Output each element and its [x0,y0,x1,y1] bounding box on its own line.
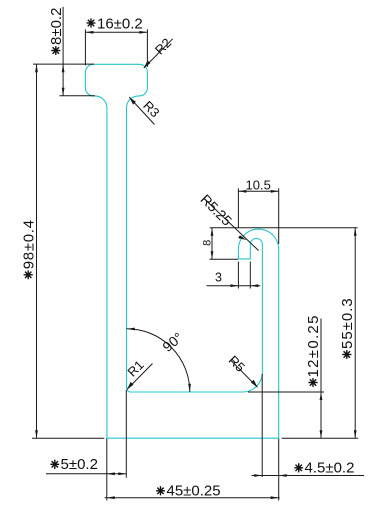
svg-text:R1: R1 [124,357,146,379]
leader R1 [127,364,153,390]
text *16±0.2 [87,18,96,27]
svg-text:45±0.25: 45±0.25 [167,483,221,500]
ext line hook top (55/8) [210,227,358,229]
svg-text:10.5: 10.5 [246,178,271,193]
arrows 45 [107,496,115,499]
arrows 90deg arc [127,328,135,331]
dim *8 ext top [33,63,94,65]
text 90° [159,329,186,355]
arrow R1 [127,382,134,390]
svg-text:R3: R3 [140,98,162,120]
text *55±0.3 (vertical) [339,297,356,359]
arrows 4.5 (outside pointing in) [254,474,262,477]
dim 10.5 ext left [237,188,239,228]
leader R2 [144,39,173,68]
ext line bottom right [282,437,359,439]
angle 90 arc [127,329,190,392]
arrows *16 [85,31,93,34]
dim 12 line [320,319,322,439]
text *5±0.2 [50,460,59,469]
svg-text:8: 8 [202,240,214,246]
svg-text:55±0.3: 55±0.3 [339,297,356,349]
dim 5 ext right [125,390,127,478]
profile outline (cyan extrusion cross-section) [85,64,278,438]
text R5.25 [197,191,235,229]
dim *98 ext bottom [32,437,104,439]
text R5 [226,353,248,375]
dim 45 line [105,497,280,499]
dim *8 ext bottom [60,95,96,97]
dim *8 line [62,7,64,96]
dim *16 ext right [146,29,148,67]
dim 12 ext top [248,391,324,393]
svg-text:R5: R5 [226,353,248,375]
dim 45 ext right [278,439,280,501]
arrows 5 (inside pointing out) [107,472,115,475]
svg-text:8±0.2: 8±0.2 [48,8,65,45]
text R2 [152,35,174,57]
text *98±0.4 (vertical) [20,219,37,279]
leader R5.25 [204,199,259,251]
arrows 3 (outside) [230,284,238,287]
svg-text:90°: 90° [159,329,186,355]
svg-text:98±0.4: 98±0.4 [20,219,37,269]
dim *16 line [85,31,147,33]
dim 8 ext bottom [209,258,238,260]
dim 45 ext left [106,439,108,501]
arrows 10.5 [238,190,246,193]
leader R3 [129,97,154,124]
svg-text:R2: R2 [152,35,174,57]
dim 10.5 ext right [278,188,280,244]
svg-text:4.5±0.2: 4.5±0.2 [305,460,355,477]
dim 3 line [207,285,261,287]
text *12±0.25 (vertical) [305,314,322,387]
text *45±0.25 [156,486,165,495]
dim 4.5 ext left [261,374,263,477]
text *4.5±0.2 [294,463,303,472]
leader R5 [231,361,258,388]
text R3 [140,98,162,120]
arrows *8 [62,64,65,72]
arrow R5 [251,380,258,388]
svg-text:5±0.2: 5±0.2 [61,456,98,473]
dim 3 ext left [237,262,239,289]
arrow R5.25 [238,235,246,240]
text *8±0.2 (vertical) [48,8,65,55]
dim 10.5 line [238,190,278,192]
text 8 [202,240,214,246]
dim 55 line [354,228,356,438]
arrows *98 [35,64,38,72]
arrows 12 [320,392,323,400]
text R1 [124,357,146,379]
dim 4.5/5 line [46,473,127,475]
arrow R2 [144,60,151,68]
dim *16 ext left [84,29,86,65]
dim *98 line [36,64,38,438]
svg-text:3: 3 [215,270,222,284]
arrow R3 [129,97,136,105]
arrows 55 [354,228,357,236]
dim 8 line [211,228,213,259]
dim 3 ext right [249,262,251,289]
svg-text:16±0.2: 16±0.2 [97,16,143,33]
arrows 8 [211,228,214,236]
svg-text:12±0.25: 12±0.25 [305,314,322,377]
